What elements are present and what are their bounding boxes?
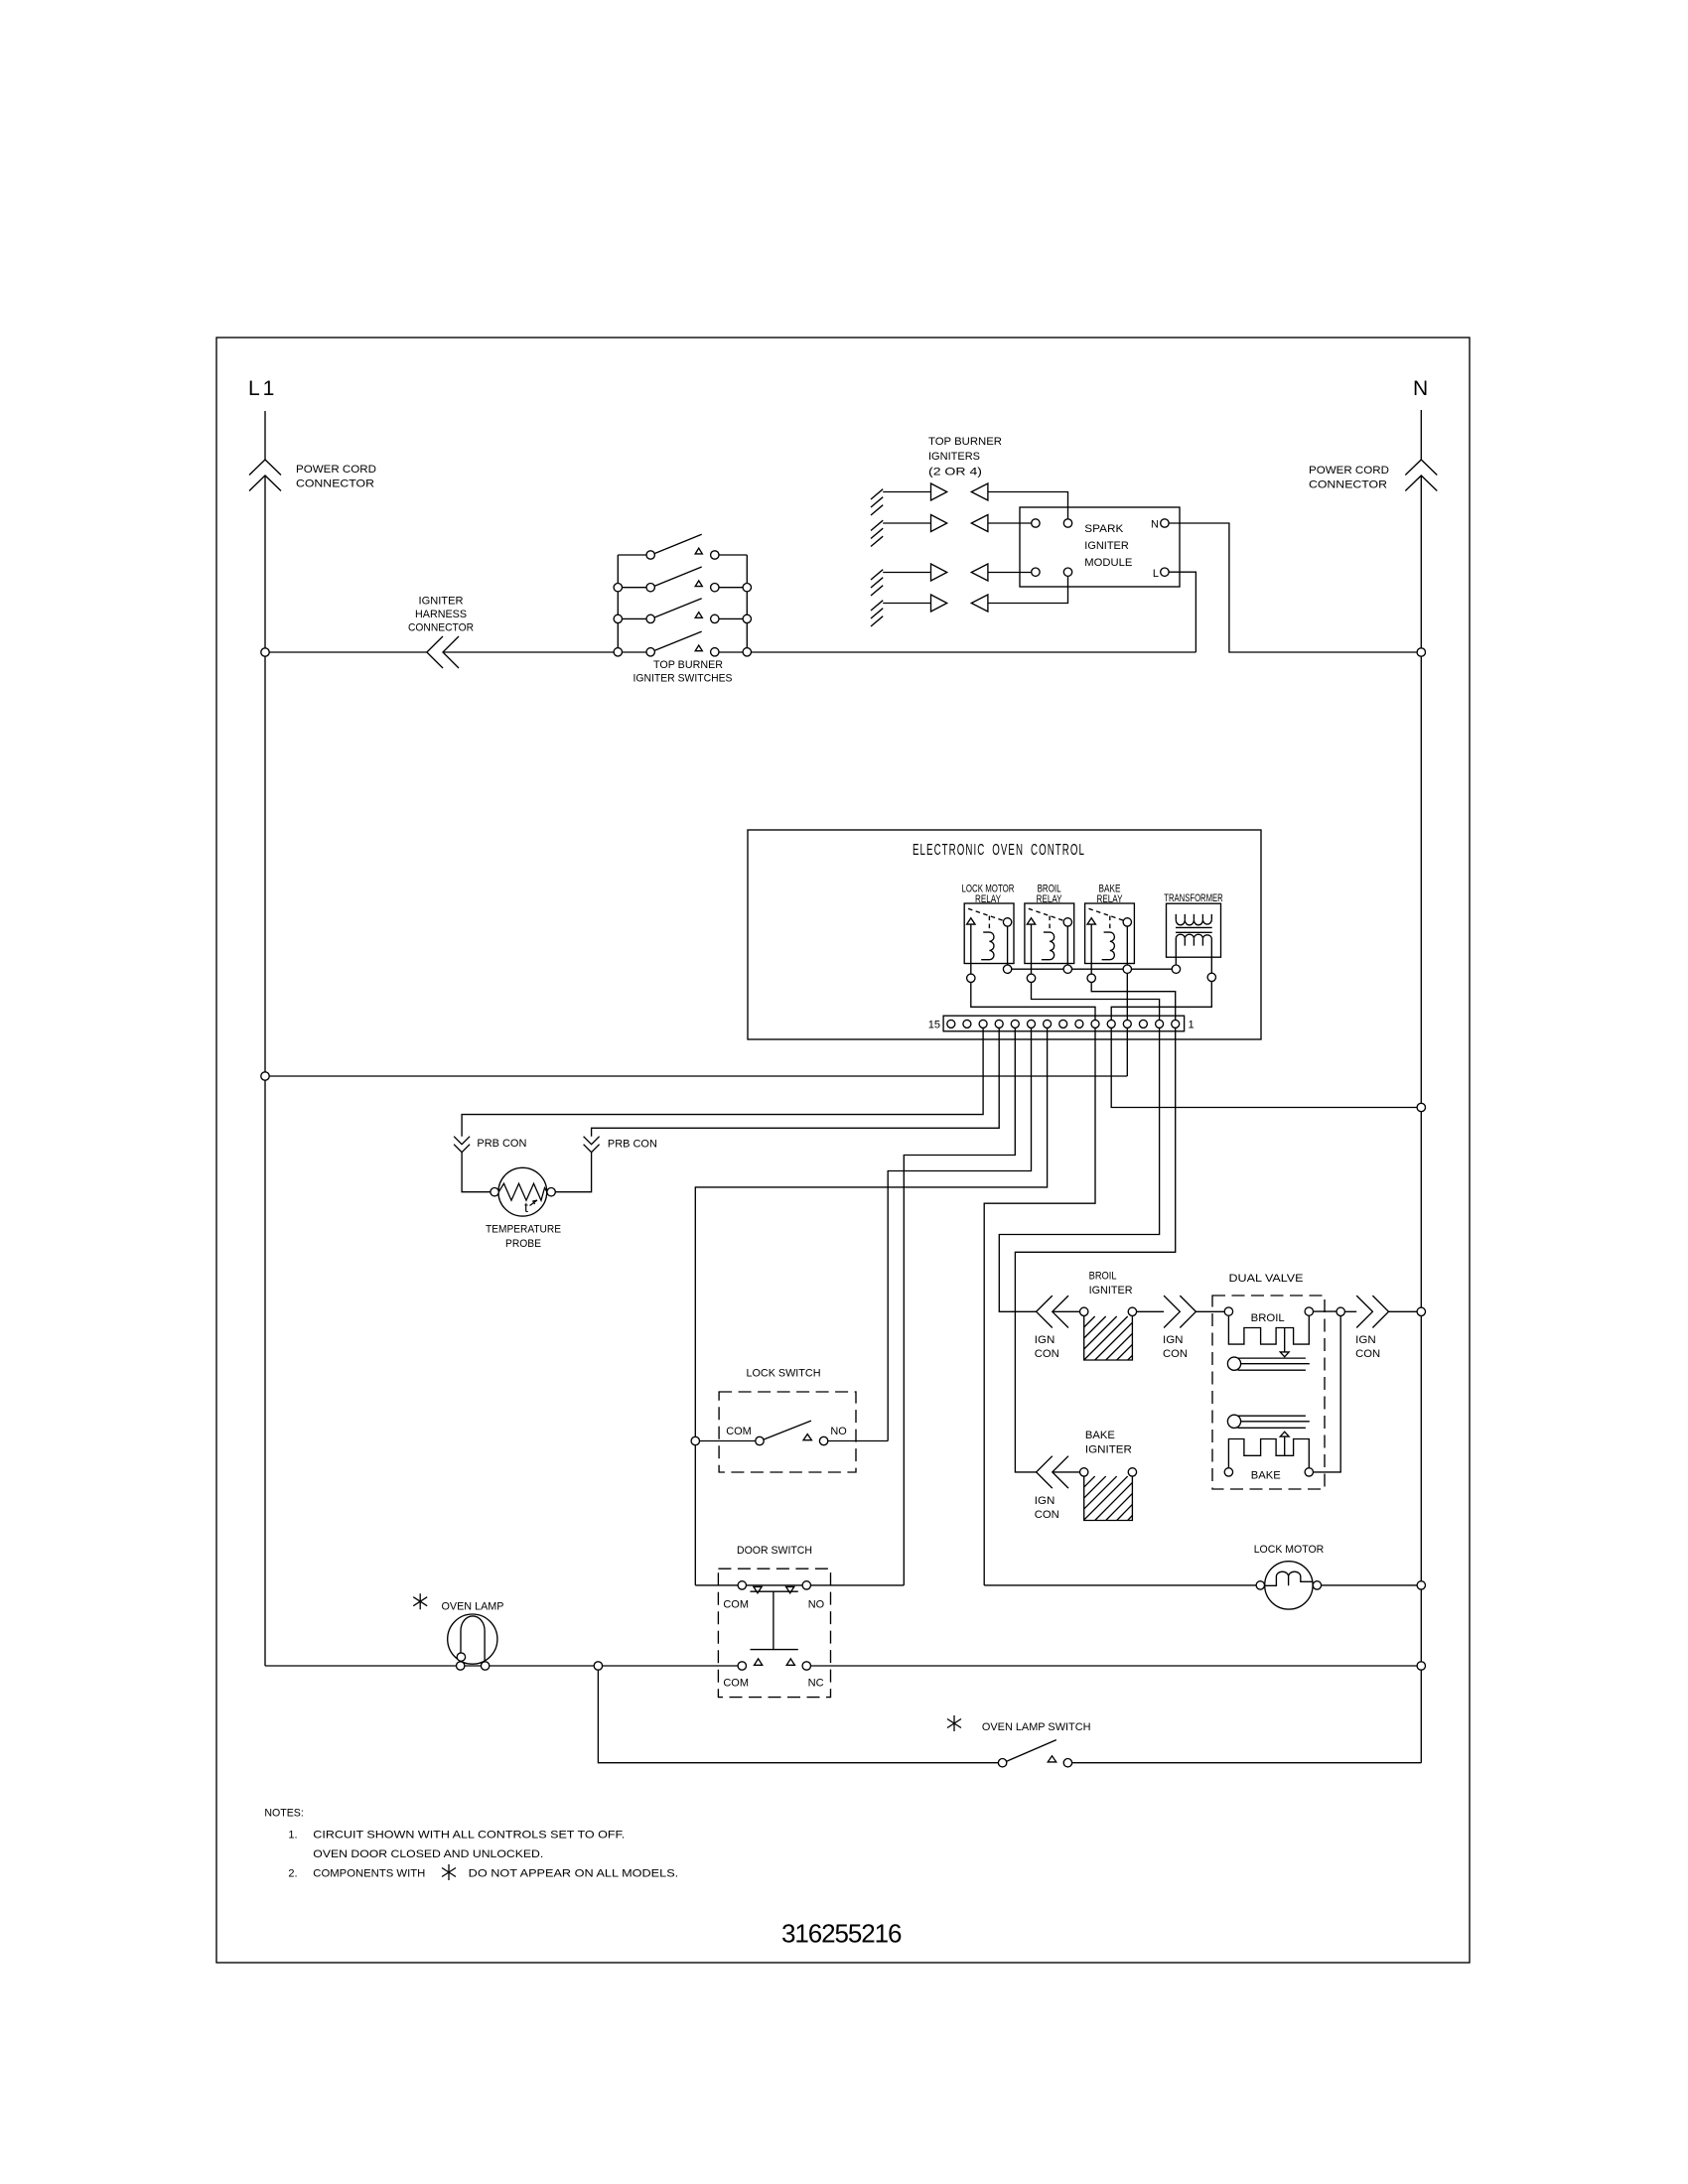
broil igniter element	[1053, 1310, 1080, 1312]
svg-text:COMPONENTS WITH: COMPONENTS WITH	[313, 1868, 425, 1880]
svg-text:IGNITER: IGNITER	[419, 596, 464, 608]
svg-text:OVEN LAMP: OVEN LAMP	[442, 1601, 504, 1613]
svg-text:BAKE: BAKE	[1251, 1470, 1281, 1482]
top burner igniter switches	[618, 555, 747, 648]
svg-text:LOCK SWITCH: LOCK SWITCH	[747, 1368, 821, 1380]
svg-text:N: N	[1413, 377, 1431, 400]
top burner igniter row 3	[871, 570, 883, 596]
door switch top row (COM/NO)	[695, 1584, 738, 1586]
node (neutral at pin5 wire)	[1417, 1103, 1425, 1111]
svg-text:PRB CON: PRB CON	[477, 1138, 526, 1150]
top burner igniter row 2	[871, 520, 883, 546]
transformer secondary terminal	[1207, 973, 1215, 981]
node (neutral at valve wire)	[1417, 1307, 1425, 1315]
wire (broil valve out to node)	[1314, 1310, 1337, 1312]
wire (pin 11 to door switch NO)	[904, 1028, 1015, 1585]
svg-text:DUAL VALVE: DUAL VALVE	[1229, 1273, 1304, 1285]
relay output rail	[1012, 968, 1172, 970]
oven lamp switch asterisk	[947, 1715, 961, 1731]
temperature probe	[498, 1167, 547, 1216]
door switch actuator	[751, 1591, 798, 1649]
wire (pin 10 to lock switch NO)	[888, 1028, 1031, 1441]
wire L1 drop	[264, 411, 266, 1666]
svg-text:L1: L1	[248, 377, 277, 400]
wire (right connector to probe)	[555, 1153, 591, 1192]
svg-text:BAKE: BAKE	[1085, 1430, 1115, 1441]
igniter connector IGN CON (bake)	[1037, 1456, 1068, 1488]
svg-text:PROBE: PROBE	[505, 1238, 541, 1250]
igniter connector IGN CON (broil mid)	[1164, 1296, 1196, 1327]
svg-text:POWER CORD: POWER CORD	[1309, 465, 1389, 477]
svg-text:NC: NC	[808, 1678, 824, 1690]
svg-text:(2 OR 4): (2 OR 4)	[928, 467, 982, 478]
wire (lamp switch to neutral)	[1072, 1762, 1422, 1764]
node (L1 bus at L1 line)	[261, 648, 269, 656]
svg-text:IGN: IGN	[1163, 1334, 1184, 1346]
switch row 4	[614, 648, 622, 656]
bottom row wire (L1 to N)	[265, 1665, 1417, 1667]
node (neutral at bottom row)	[1417, 1662, 1425, 1670]
svg-text:SPARK: SPARK	[1084, 523, 1124, 535]
switch row 1	[646, 551, 654, 559]
wire (pin 2 to broil igniter)	[999, 1028, 1159, 1312]
svg-text:IGNITER SWITCHES: IGNITER SWITCHES	[633, 673, 733, 685]
valve output node	[1336, 1307, 1344, 1315]
svg-text:LOCK MOTOR: LOCK MOTOR	[1254, 1544, 1325, 1556]
node (neutral junction top)	[1417, 648, 1425, 656]
wire (module L to L1 bus)	[1169, 572, 1196, 652]
svg-text:BROIL: BROIL	[1251, 1312, 1285, 1324]
node (neutral at lock motor)	[1417, 1581, 1425, 1589]
wire (pin 9 to lock/door switch COM)	[695, 1028, 1047, 1585]
wire (lock relay coil to pin 6)	[971, 983, 1095, 1021]
igniter connector IGN CON (broil left)	[1037, 1296, 1068, 1327]
svg-text:1.: 1.	[288, 1830, 297, 1842]
igniter connector IGN CON (valve right)	[1344, 1310, 1356, 1312]
svg-text:CONNECTOR: CONNECTOR	[1309, 479, 1387, 491]
svg-text:N: N	[1151, 519, 1159, 531]
svg-text:OVEN DOOR CLOSED AND UNLOCKED.: OVEN DOOR CLOSED AND UNLOCKED.	[313, 1848, 543, 1860]
oven lamp	[448, 1614, 497, 1664]
svg-text:CON: CON	[1355, 1348, 1380, 1360]
wire (valve node down to bake valve)	[1314, 1316, 1341, 1472]
svg-text:TEMPERATURE: TEMPERATURE	[486, 1224, 561, 1236]
svg-text:CIRCUIT SHOWN WITH ALL CONTROL: CIRCUIT SHOWN WITH ALL CONTROLS SET TO O…	[313, 1830, 625, 1842]
svg-text:TRANSFORMER: TRANSFORMER	[1164, 892, 1223, 904]
svg-text:DO NOT APPEAR ON ALL MODELS.: DO NOT APPEAR ON ALL MODELS.	[469, 1868, 679, 1880]
svg-text:CONNECTOR: CONNECTOR	[296, 478, 374, 490]
node (bus at L1 line)	[261, 1072, 269, 1080]
svg-text:IGN: IGN	[1035, 1334, 1055, 1346]
svg-text:t: t	[524, 1199, 528, 1215]
svg-text:DOOR SWITCH: DOOR SWITCH	[737, 1545, 812, 1557]
wire L1 bus (y=657)	[265, 651, 1196, 653]
svg-text:IGNITER: IGNITER	[1085, 1444, 1132, 1456]
wire (bake relay contact to pin 4)	[1126, 973, 1128, 1020]
igniter harness connector	[427, 636, 459, 668]
wire (broil relay coil to pin 2)	[1032, 983, 1160, 1021]
svg-text:NO: NO	[808, 1599, 825, 1611]
svg-text:POWER CORD: POWER CORD	[296, 464, 376, 476]
top burner igniter row 4	[871, 601, 883, 626]
wire (left connector to probe)	[462, 1153, 491, 1192]
svg-text:HARNESS: HARNESS	[415, 609, 467, 620]
spark igniter module	[1020, 507, 1180, 587]
wire (transformer to pin 5)	[1111, 982, 1211, 1021]
wire (pin 6 to lock motor)	[984, 1028, 1095, 1585]
wire N drop	[1420, 410, 1422, 1763]
wire (pin 5 to neutral line)	[1111, 1028, 1417, 1108]
power cord connector (L1)	[249, 460, 281, 491]
power cord connector (N)	[1405, 460, 1437, 491]
svg-text:2.: 2.	[288, 1868, 297, 1880]
svg-text:MODULE: MODULE	[1084, 557, 1132, 569]
svg-text:COM: COM	[723, 1599, 749, 1611]
svg-text:ELECTRONIC OVEN CONTROL: ELECTRONIC OVEN CONTROL	[913, 842, 1085, 859]
svg-text:IGNITER: IGNITER	[1084, 540, 1129, 552]
probe connector PRB CON (right)	[584, 1137, 600, 1153]
svg-text:1: 1	[1189, 1020, 1195, 1031]
broil valve	[1224, 1307, 1232, 1315]
wire (module N to neutral line)	[1169, 523, 1417, 652]
top burner igniter row 1	[871, 489, 883, 515]
svg-text:BROIL: BROIL	[1089, 1271, 1117, 1283]
bake igniter element	[1053, 1471, 1080, 1473]
wire (pin 13 to left probe connector)	[462, 1028, 983, 1137]
wire (lamp tap down to lamp switch)	[598, 1670, 998, 1763]
door switch bottom row (COM/NC)	[738, 1662, 746, 1670]
connector strip	[943, 1016, 1185, 1031]
svg-text:TOP BURNER: TOP BURNER	[928, 436, 1002, 448]
switch row 2	[614, 584, 622, 592]
wire L1 bus (y=1084) to pin 4	[265, 1028, 1127, 1076]
svg-text:PRB CON: PRB CON	[608, 1139, 657, 1151]
svg-text:CON: CON	[1163, 1348, 1188, 1360]
svg-text:TOP BURNER: TOP BURNER	[653, 659, 723, 671]
svg-text:15: 15	[928, 1020, 940, 1031]
svg-text:IGNITERS: IGNITERS	[928, 451, 980, 463]
svg-text:COM: COM	[723, 1678, 749, 1690]
svg-text:IGNITER: IGNITER	[1089, 1285, 1133, 1297]
svg-text:CON: CON	[1035, 1348, 1059, 1360]
svg-text:316255216: 316255216	[781, 1919, 904, 1949]
node (lamp circuit tap)	[594, 1662, 602, 1670]
svg-text:IGN: IGN	[1035, 1495, 1055, 1507]
svg-text:CONNECTOR: CONNECTOR	[408, 622, 474, 634]
svg-text:NOTES:: NOTES:	[264, 1808, 303, 1820]
svg-text:IGN: IGN	[1355, 1334, 1376, 1346]
svg-text:NO: NO	[830, 1426, 847, 1437]
wire (pin 12 to right probe connector)	[592, 1028, 1000, 1137]
switch row 3	[614, 614, 622, 622]
electronic oven control box	[748, 830, 1261, 1039]
oven lamp switch	[998, 1759, 1006, 1767]
svg-text:L: L	[1153, 568, 1159, 580]
svg-text:OVEN LAMP SWITCH: OVEN LAMP SWITCH	[982, 1721, 1091, 1733]
wire (bake relay coil to pin 1)	[1091, 983, 1176, 1021]
svg-text:CON: CON	[1035, 1509, 1059, 1521]
probe connector PRB CON (left)	[454, 1137, 470, 1153]
oven lamp asterisk	[413, 1593, 427, 1609]
wire (pin 1 to bake igniter)	[1015, 1028, 1175, 1472]
bake valve	[1227, 1415, 1240, 1428]
svg-text:COM: COM	[726, 1426, 752, 1437]
